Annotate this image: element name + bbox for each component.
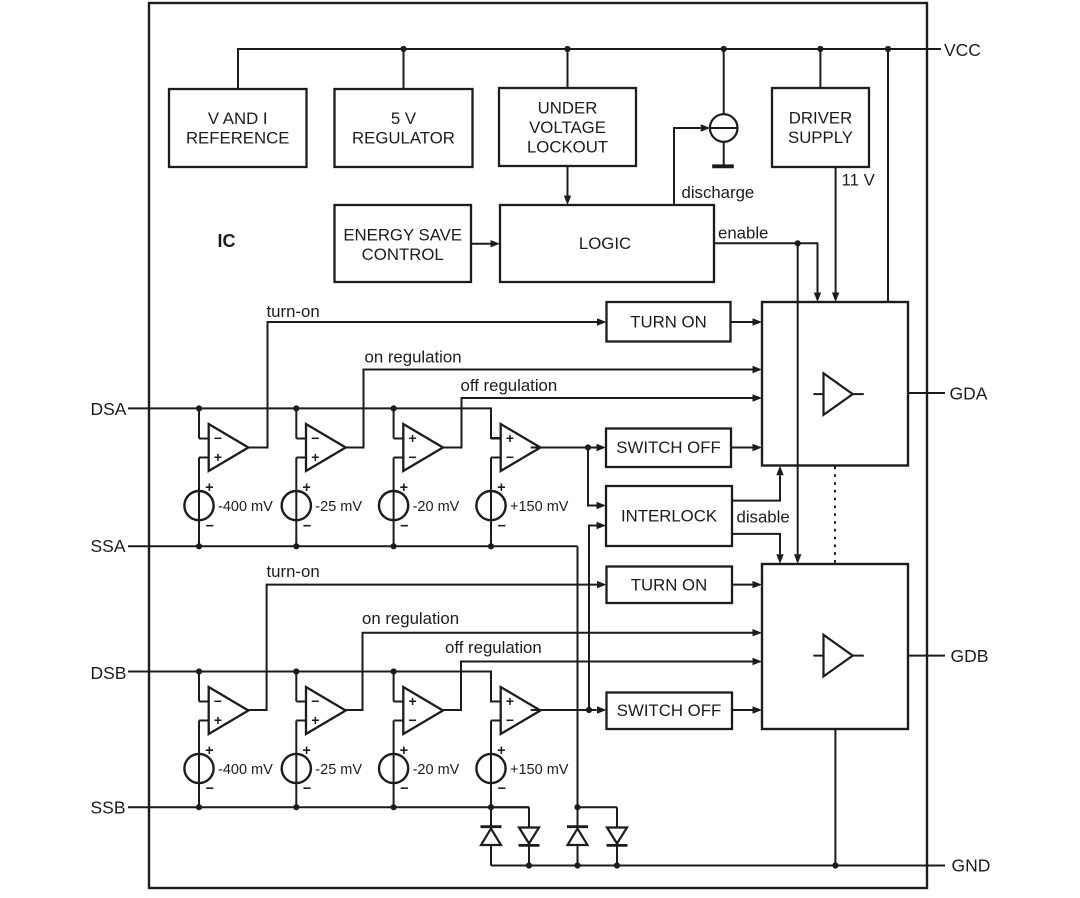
wire enable from logic	[714, 243, 818, 292]
wire interlock disable to driver A	[732, 475, 780, 500]
svg-text:−: −	[214, 693, 222, 709]
block V AND I REFERENCE	[169, 89, 307, 167]
svg-text:-400 mV: -400 mV	[218, 762, 273, 778]
svg-text:+: +	[302, 743, 310, 759]
svg-text:ENERGY SAVE: ENERGY SAVE	[343, 225, 462, 244]
svg-text:LOGIC: LOGIC	[579, 234, 631, 253]
junction SSA clamp top bus	[574, 804, 580, 810]
svg-text:SSB: SSB	[91, 798, 126, 818]
svg-text:VOLTAGE: VOLTAGE	[529, 118, 606, 137]
offset source B3 -20 mV	[379, 754, 408, 783]
svg-text:+: +	[409, 693, 417, 709]
block gate driver B	[762, 564, 908, 729]
junction GND clamp diode D3	[574, 862, 580, 868]
wire comparator A4 output to interlock	[588, 448, 597, 506]
svg-text:+: +	[205, 743, 213, 759]
svg-text:−: −	[206, 518, 214, 534]
junction SSA source A3	[391, 543, 397, 549]
junction SSB source B2	[293, 804, 299, 810]
svg-text:on regulation: on regulation	[365, 347, 462, 366]
junction GND driver B	[832, 862, 838, 868]
svg-text:−: −	[400, 781, 408, 797]
svg-text:−: −	[303, 518, 311, 534]
junction on VCC rail at driver A branch	[885, 46, 891, 52]
offset source A1 -400 mV	[184, 491, 213, 520]
svg-text:TURN ON: TURN ON	[630, 312, 706, 331]
svg-text:TURN ON: TURN ON	[631, 575, 707, 594]
svg-text:off regulation: off regulation	[461, 376, 558, 395]
svg-text:DRIVER: DRIVER	[789, 108, 852, 127]
svg-text:DSB: DSB	[91, 663, 127, 683]
svg-text:GDA: GDA	[950, 383, 988, 403]
block gate driver A	[762, 302, 908, 466]
svg-text:−: −	[311, 430, 319, 446]
junction comparator B4 output	[586, 707, 592, 713]
wire SSA line	[128, 545, 578, 547]
wire GND bus	[491, 865, 945, 867]
wire DSB to comparator B3 plus	[393, 672, 395, 702]
wire off regulation B	[443, 662, 753, 711]
dashed link driver A to driver B	[834, 467, 836, 564]
svg-text:DSA: DSA	[91, 399, 127, 419]
wire VCC to current source	[723, 49, 725, 114]
svg-text:+: +	[205, 480, 213, 496]
wire DSA to comparator A3 plus	[393, 408, 395, 438]
svg-text:−: −	[506, 712, 514, 728]
wire SSA clamp top bus	[578, 806, 618, 808]
wire VCC to driver supply	[819, 49, 821, 88]
junction DSA comparator 1	[196, 405, 202, 411]
svg-text:turn-on: turn-on	[267, 562, 320, 581]
svg-text:+: +	[506, 693, 514, 709]
svg-text:−: −	[311, 693, 319, 709]
wire DSB line	[128, 672, 501, 702]
svg-text:SWITCH OFF: SWITCH OFF	[617, 701, 721, 720]
wire source A3 comparator input to SSA	[393, 458, 395, 547]
current source (discharge)	[710, 114, 738, 142]
svg-text:GDB: GDB	[951, 646, 989, 666]
block 5 V REGULATOR	[335, 89, 473, 167]
wire source B1 comparator input to SSB	[198, 721, 200, 808]
wire SWITCH OFF B to driver B	[732, 709, 753, 711]
svg-text:+150 mV: +150 mV	[510, 499, 569, 515]
svg-text:11 V: 11 V	[842, 171, 876, 190]
block DRIVER SUPPLY	[772, 88, 869, 167]
svg-text:−: −	[206, 781, 214, 797]
block LOGIC	[500, 205, 714, 282]
wire GDA output	[908, 392, 945, 394]
svg-text:-20 mV: -20 mV	[413, 762, 460, 778]
svg-text:-25 mV: -25 mV	[315, 762, 362, 778]
svg-text:+150 mV: +150 mV	[510, 762, 569, 778]
junction DSB comparator 3	[391, 668, 397, 674]
svg-text:enable: enable	[718, 224, 768, 243]
svg-text:+: +	[214, 449, 222, 465]
wire comparator B4 output to interlock	[589, 526, 597, 711]
wire VCC to 5V regulator	[403, 49, 405, 89]
buffer amplifier A	[824, 373, 853, 415]
svg-text:+: +	[302, 480, 310, 496]
junction comparator A4 output	[585, 444, 591, 450]
svg-text:−: −	[498, 781, 506, 797]
block ENERGY SAVE CONTROL	[335, 205, 472, 282]
svg-text:CONTROL: CONTROL	[362, 245, 444, 264]
block SWITCH OFF A	[606, 429, 731, 468]
wire energy save control to logic	[471, 243, 491, 245]
clamp diode D2	[519, 828, 539, 844]
wire discharge from logic	[674, 128, 701, 205]
wire interlock disable to driver B	[732, 534, 780, 554]
comparator A3	[403, 424, 443, 471]
svg-text:turn-on: turn-on	[267, 302, 320, 321]
svg-text:UNDER: UNDER	[538, 98, 598, 117]
block UNDER VOLTAGE LOCKOUT	[499, 88, 636, 166]
comparator B4	[501, 687, 541, 734]
svg-text:+: +	[409, 430, 417, 446]
junction SSB source B3	[391, 804, 397, 810]
svg-text:+: +	[400, 480, 408, 496]
svg-text:5 V: 5 V	[391, 109, 417, 128]
svg-text:+: +	[506, 430, 514, 446]
svg-text:+: +	[311, 712, 319, 728]
clamp diode D4	[607, 828, 627, 844]
wire on regulation B	[345, 633, 753, 710]
comparator B1	[209, 687, 249, 734]
wire current source to ground	[723, 142, 725, 165]
wire driver B to GND	[834, 729, 836, 866]
wire TURN ON B to driver B	[732, 584, 753, 586]
junction on VCC rail above 5V regulator	[400, 46, 406, 52]
wire GDB output	[908, 655, 945, 657]
junction DSA comparator 3	[391, 405, 397, 411]
junction DSA comparator 2	[293, 405, 299, 411]
svg-text:discharge: discharge	[682, 183, 755, 202]
wire SWITCH OFF A to driver A	[731, 447, 753, 449]
junction SSA source A4	[488, 543, 494, 549]
wire 11 V driver supply to driver A	[835, 167, 837, 293]
junction DSB comparator 1	[196, 668, 202, 674]
wire DSB to comparator B2 minus	[295, 672, 297, 702]
svg-text:−: −	[400, 518, 408, 534]
junction DSB comparator 2	[293, 668, 299, 674]
wire source A4 comparator input to SSA	[490, 458, 492, 547]
svg-text:−: −	[506, 449, 514, 465]
svg-text:+: +	[497, 480, 505, 496]
svg-text:+: +	[497, 743, 505, 759]
wire on regulation A	[345, 370, 753, 448]
offset source A3 -20 mV	[379, 491, 408, 520]
wire TURN ON A to driver A	[731, 321, 753, 323]
svg-text:LOCKOUT: LOCKOUT	[527, 137, 608, 156]
svg-text:SWITCH OFF: SWITCH OFF	[616, 438, 720, 457]
offset source B1 -400 mV	[184, 754, 213, 783]
offset source B4 +150 mV	[476, 754, 505, 783]
comparator B3	[403, 687, 443, 734]
block TURN ON B	[607, 567, 733, 604]
junction GND clamp diode D2	[526, 862, 532, 868]
ground bar	[712, 164, 734, 168]
wire source B2 comparator input to SSB	[295, 721, 297, 808]
junction on VCC rail above undervoltage lockout	[564, 46, 570, 52]
block SWITCH OFF B	[607, 693, 733, 730]
svg-text:V AND I: V AND I	[208, 109, 268, 128]
wire source B4 comparator input to SSB	[490, 721, 492, 808]
wire SSB clamp top bus	[491, 806, 529, 808]
svg-text:SUPPLY: SUPPLY	[788, 128, 853, 147]
IC boundary	[149, 3, 927, 888]
wire SSB line	[128, 806, 529, 808]
buffer amplifier B	[824, 635, 853, 677]
comparator A4	[501, 424, 541, 471]
junction SSA source A1	[196, 543, 202, 549]
wire VCC to undervoltage lockout	[567, 49, 569, 88]
junction GND clamp diode D4	[614, 862, 620, 868]
svg-text:VCC: VCC	[944, 40, 981, 60]
wire DSB to comparator B1 minus	[198, 672, 200, 702]
clamp diode D1	[481, 825, 502, 828]
block INTERLOCK	[606, 486, 732, 546]
svg-text:on regulation: on regulation	[362, 609, 459, 628]
block TURN ON A	[607, 302, 731, 342]
svg-text:SSA: SSA	[91, 536, 126, 556]
svg-text:+: +	[400, 743, 408, 759]
wire off regulation A	[443, 398, 753, 448]
svg-text:−: −	[409, 449, 417, 465]
svg-text:off regulation: off regulation	[445, 638, 542, 657]
wire comparator B4 output	[531, 709, 597, 711]
wire turn-on B	[248, 585, 597, 710]
wire enable to driver B	[797, 243, 799, 554]
svg-text:+: +	[311, 449, 319, 465]
svg-text:REFERENCE: REFERENCE	[186, 128, 290, 147]
svg-text:+: +	[214, 712, 222, 728]
wire SSA down to clamp diodes	[577, 546, 579, 807]
svg-text:-25 mV: -25 mV	[315, 499, 362, 515]
svg-text:GND: GND	[952, 855, 991, 875]
svg-text:−: −	[303, 781, 311, 797]
wire DSA to comparator A1 minus	[198, 408, 200, 438]
svg-text:−: −	[409, 712, 417, 728]
junction on VCC rail above discharge current source	[721, 46, 727, 52]
wire undervoltage lockout to logic	[567, 166, 569, 196]
offset source B2 -25 mV	[282, 754, 311, 783]
wire turn-on A	[248, 322, 597, 448]
wire VCC rail	[238, 49, 941, 89]
wire source A1 comparator input to SSA	[198, 458, 200, 547]
junction SSB source B4 and clamp diode D1	[488, 804, 494, 810]
svg-text:IC: IC	[218, 231, 236, 251]
wire source A2 comparator input to SSA	[295, 458, 297, 547]
offset source A4 +150 mV	[476, 491, 505, 520]
wire DSA to comparator A2 minus	[295, 408, 297, 438]
wire source B3 comparator input to SSB	[393, 721, 395, 808]
wire comparator A4 output	[531, 447, 597, 449]
junction on enable wire	[795, 240, 801, 246]
junction SSB source B1	[196, 804, 202, 810]
comparator A1	[209, 424, 249, 471]
wire DSA line	[128, 408, 501, 438]
comparator A2	[306, 424, 346, 471]
svg-text:REGULATOR: REGULATOR	[352, 128, 455, 147]
offset source A2 -25 mV	[282, 491, 311, 520]
wire VCC to driver A	[887, 49, 889, 302]
junction on VCC rail above driver supply	[817, 46, 823, 52]
svg-text:-400 mV: -400 mV	[218, 499, 273, 515]
clamp diode D3	[567, 825, 588, 828]
svg-text:INTERLOCK: INTERLOCK	[621, 507, 717, 526]
svg-text:−: −	[498, 518, 506, 534]
svg-text:−: −	[214, 430, 222, 446]
svg-text:-20 mV: -20 mV	[413, 499, 460, 515]
comparator B2	[306, 687, 346, 734]
svg-text:disable: disable	[737, 507, 790, 526]
junction SSA source A2	[293, 543, 299, 549]
